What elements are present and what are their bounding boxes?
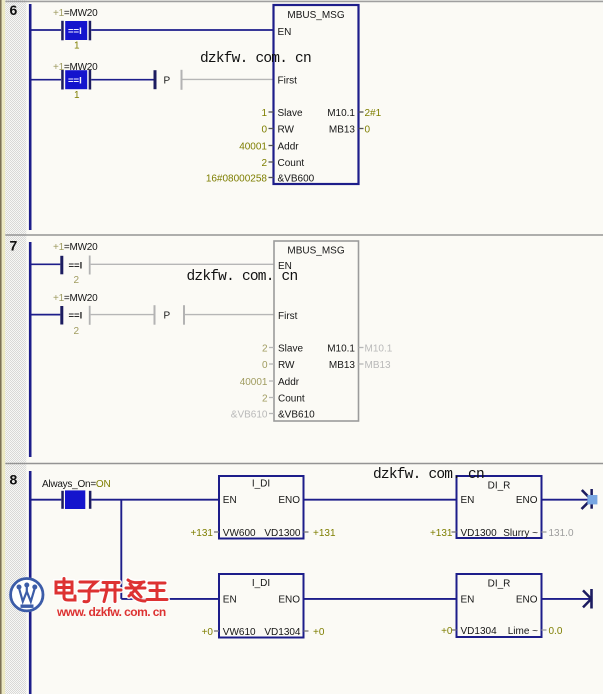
tick Count input <box>269 161 274 163</box>
svg-text:EN: EN <box>223 595 237 606</box>
tick I_DI no.1 OUT <box>304 531 309 533</box>
separator between network 7 and 8 <box>5 463 603 465</box>
svg-text:0: 0 <box>262 360 268 371</box>
tick MB13 output gray <box>359 363 364 365</box>
logo circle <box>11 579 43 611</box>
tick RW input gray <box>269 363 274 365</box>
svg-text:==I: ==I <box>69 260 83 271</box>
svg-text:==I: ==I <box>68 26 82 37</box>
svg-text:VW610: VW610 <box>223 627 256 638</box>
svg-text:Slurry ~: Slurry ~ <box>503 528 538 539</box>
arrow continuation no.1 diagonals <box>582 490 592 500</box>
tick I_DI no.2 OUT <box>304 630 309 632</box>
contact ==I no.2 right bar <box>89 70 92 90</box>
svg-text:I_DI: I_DI <box>252 479 270 490</box>
contact ==I no.1 left bar <box>60 256 63 274</box>
svg-text:1: 1 <box>74 90 80 101</box>
wire contact 1 to MBUS_MSG EN <box>91 29 273 31</box>
separator between network 6 and 7 <box>5 234 603 236</box>
svg-text:&VB610: &VB610 <box>278 410 315 421</box>
wire rail to contact 2 <box>29 314 60 316</box>
svg-text:1: 1 <box>261 108 267 119</box>
svg-text:MB13: MB13 <box>365 360 392 371</box>
arrow continuation no.2 head <box>583 590 591 599</box>
svg-text:7: 7 <box>10 238 18 254</box>
svg-text:EN: EN <box>461 595 475 606</box>
network 8 left power rail <box>29 471 32 694</box>
svg-text:MB13: MB13 <box>329 125 356 136</box>
separator top <box>5 0 603 2</box>
svg-text:DI_R: DI_R <box>488 579 511 590</box>
arrow continuation no.1 vertical bar <box>590 489 593 509</box>
contact Always_On left bar <box>61 491 64 509</box>
svg-text:dzkfw. com. cn: dzkfw. com. cn <box>373 467 484 483</box>
tick DI_R no.2 OUT <box>542 629 547 631</box>
svg-text:+131: +131 <box>313 528 336 539</box>
tick Slave input gray <box>269 347 274 349</box>
arrow continuation no.2 vertical bar <box>590 589 593 609</box>
tick Count input gray <box>269 397 274 399</box>
svg-text:+1=MW20: +1=MW20 <box>53 293 98 304</box>
svg-text:Addr: Addr <box>278 377 300 388</box>
wire P contact to MBUS_MSG First gray <box>185 314 274 316</box>
svg-text:==I: ==I <box>68 76 82 87</box>
wire I_DI no.2 ENO to DI_R no.2 EN <box>304 598 457 600</box>
svg-text:&VB610: &VB610 <box>231 410 268 421</box>
contact Always_On right bar <box>89 491 92 509</box>
svg-text:EN: EN <box>278 27 292 38</box>
svg-text:+0: +0 <box>313 627 325 638</box>
tick RW input <box>269 128 274 130</box>
svg-text:Always_On=ON: Always_On=ON <box>42 479 110 490</box>
svg-text:ENO: ENO <box>278 595 300 606</box>
svg-text:EN: EN <box>223 495 237 506</box>
svg-text:Slave: Slave <box>278 108 303 119</box>
svg-text:First: First <box>278 76 298 87</box>
arrow continuation no.1 selection square <box>587 495 597 504</box>
svg-text:www. dzkfw. com. cn: www. dzkfw. com. cn <box>56 605 166 619</box>
tick &VB610 input gray <box>269 413 274 415</box>
svg-text:VW600: VW600 <box>223 528 256 539</box>
wire rail to contact Always_On <box>29 499 61 501</box>
contact ==I no.1 left bar <box>61 21 64 41</box>
tick I_DI no.1 IN <box>214 531 219 533</box>
wire rail to contact 1 <box>29 263 60 265</box>
svg-text:+131: +131 <box>430 528 453 539</box>
wire rail to contact 1 <box>29 29 61 31</box>
svg-text:Count: Count <box>278 394 305 405</box>
svg-text:I_DI: I_DI <box>252 578 270 589</box>
svg-text:+131: +131 <box>190 528 213 539</box>
svg-text:Lime ~: Lime ~ <box>508 626 538 637</box>
tick M10.1 output gray <box>359 347 364 349</box>
contact ==I no.1 right bar gray <box>89 256 91 275</box>
network 6 left power rail <box>29 4 32 230</box>
svg-text:Count: Count <box>278 158 305 169</box>
function block I_DI no.2 box <box>219 574 304 638</box>
tick DI_R no.2 IN <box>452 629 457 631</box>
P contact left bar gray <box>154 305 156 325</box>
tick DI_R no.1 OUT <box>542 531 547 533</box>
svg-text:Addr: Addr <box>278 142 300 153</box>
wire branch to I_DI no.2 EN <box>121 598 219 600</box>
svg-text:VD1300: VD1300 <box>461 528 498 539</box>
svg-text:16#08000258: 16#08000258 <box>206 174 268 185</box>
P contact left bar <box>154 70 157 89</box>
svg-text:0.0: 0.0 <box>549 626 563 637</box>
tick MB13 output <box>359 128 364 130</box>
svg-text:&VB600: &VB600 <box>278 174 315 185</box>
svg-text:P: P <box>164 311 171 322</box>
P contact right bar gray <box>183 305 185 325</box>
svg-text:+1=MW20: +1=MW20 <box>53 242 98 253</box>
function block MBUS_MSG no.2 box gray <box>274 241 359 421</box>
svg-text:dzkfw. com. cn: dzkfw. com. cn <box>187 269 298 285</box>
network number gutter <box>5 0 26 694</box>
tick Addr input <box>269 145 274 147</box>
wire DI_R no.2 ENO to arrow <box>542 598 591 600</box>
wire contact 2 to P contact gray <box>91 314 154 316</box>
logo W strokes <box>19 587 35 602</box>
contact Always_On powered fill box <box>65 490 85 509</box>
tick Addr input gray <box>269 380 274 382</box>
svg-text:VD1300: VD1300 <box>264 528 301 539</box>
contact ==I no.2 left bar <box>61 70 64 90</box>
logo W dots <box>17 583 38 608</box>
function block DI_R no.2 box <box>457 574 542 637</box>
contact ==I no.1 right bar <box>89 21 92 41</box>
svg-text:2#1: 2#1 <box>365 108 382 119</box>
svg-text:dzkfw. com. cn: dzkfw. com. cn <box>200 51 311 67</box>
svg-text:M10.1: M10.1 <box>327 108 355 119</box>
svg-text:ENO: ENO <box>278 495 300 506</box>
svg-text:MBUS_MSG: MBUS_MSG <box>287 10 344 21</box>
svg-text:RW: RW <box>278 125 295 136</box>
junction branch vertical wire <box>120 500 122 599</box>
wire P contact to MBUS_MSG First gray <box>183 78 274 80</box>
svg-text:1: 1 <box>74 41 80 52</box>
svg-text:ENO: ENO <box>516 595 538 606</box>
svg-text:2: 2 <box>74 326 80 337</box>
tick DI_R no.1 IN <box>452 531 457 533</box>
svg-text:==I: ==I <box>69 311 83 322</box>
wire contact 1 to MBUS_MSG EN gray <box>91 263 274 265</box>
svg-text:P: P <box>164 76 171 87</box>
wire DI_R no.1 ENO to arrow <box>542 499 589 501</box>
svg-text:8: 8 <box>10 472 18 488</box>
svg-text:RW: RW <box>278 360 295 371</box>
svg-text:MBUS_MSG: MBUS_MSG <box>287 246 344 257</box>
contact ==I no.2 right bar gray <box>89 306 91 325</box>
svg-text:2: 2 <box>262 394 268 405</box>
svg-text:2: 2 <box>262 344 268 355</box>
svg-text:Slave: Slave <box>278 344 303 355</box>
svg-text:+0: +0 <box>441 626 453 637</box>
function block DI_R no.1 box <box>457 476 542 538</box>
svg-text:+0: +0 <box>202 627 214 638</box>
svg-text:40001: 40001 <box>240 377 268 388</box>
function block MBUS_MSG no.1 box <box>274 5 359 184</box>
svg-text:+1=MW20: +1=MW20 <box>53 8 98 19</box>
svg-text:DI_R: DI_R <box>488 481 511 492</box>
svg-text:M10.1: M10.1 <box>327 344 355 355</box>
P contact right bar gray <box>181 70 183 90</box>
tick &VB600 input <box>269 177 274 179</box>
contact ==I no.2 powered fill box <box>65 70 87 89</box>
svg-text:MB13: MB13 <box>329 360 356 371</box>
svg-text:ENO: ENO <box>516 495 538 506</box>
svg-text:First: First <box>278 311 298 322</box>
svg-text:0: 0 <box>261 125 267 136</box>
tick I_DI no.2 IN <box>214 630 219 632</box>
tick Slave input <box>269 111 274 113</box>
wire rail to contact 2 <box>29 79 61 81</box>
svg-text:VD1304: VD1304 <box>264 627 301 638</box>
left window edge cream strip <box>2 0 6 694</box>
wire contact 2 to P contact <box>91 79 153 81</box>
svg-text:2: 2 <box>74 275 80 286</box>
network 7 left power rail <box>29 242 32 457</box>
svg-text:40001: 40001 <box>239 142 267 153</box>
svg-text:2: 2 <box>261 158 267 169</box>
contact ==I no.1 powered fill box <box>65 21 87 40</box>
svg-text:EN: EN <box>461 495 475 506</box>
wire I_DI no.1 ENO to DI_R no.1 EN <box>304 499 457 501</box>
svg-text:6: 6 <box>10 2 18 18</box>
tick M10.1 output <box>359 111 364 113</box>
svg-text:M10.1: M10.1 <box>365 344 393 355</box>
svg-text:0: 0 <box>365 125 371 136</box>
red brand characters 电子开发王 <box>56 579 167 602</box>
left window edge dark strip <box>0 0 2 694</box>
wire contact to I_DI no.1 EN <box>91 499 219 501</box>
function block I_DI no.1 box <box>219 476 304 539</box>
contact ==I no.2 left bar <box>60 306 63 325</box>
svg-text:131.0: 131.0 <box>549 528 574 539</box>
svg-text:VD1304: VD1304 <box>461 626 498 637</box>
